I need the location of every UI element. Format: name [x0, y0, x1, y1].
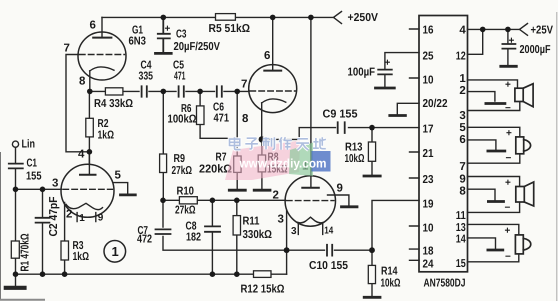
svg-text:R14: R14 [381, 266, 398, 278]
svg-text:R1 470kΩ: R1 470kΩ [20, 234, 32, 272]
svg-text:182: 182 [186, 232, 201, 244]
svg-text:+: + [385, 58, 391, 69]
svg-text:23: 23 [423, 174, 434, 186]
svg-text:+: + [505, 226, 511, 237]
svg-text:3: 3 [278, 214, 284, 226]
svg-text:12: 12 [456, 51, 466, 63]
svg-text:1: 1 [459, 73, 466, 85]
svg-text:20/22: 20/22 [423, 98, 448, 110]
svg-text:14: 14 [456, 234, 466, 246]
svg-text:472: 472 [137, 234, 152, 246]
svg-text:8: 8 [79, 76, 86, 88]
svg-text:10kΩ: 10kΩ [345, 153, 365, 165]
svg-text:2: 2 [459, 85, 465, 97]
svg-text:27kΩ: 27kΩ [172, 165, 193, 177]
svg-text:15: 15 [456, 258, 466, 270]
svg-text:C9 155: C9 155 [323, 109, 359, 121]
svg-text:5: 5 [115, 170, 122, 182]
svg-text:9: 9 [98, 213, 104, 224]
svg-text:100kΩ: 100kΩ [168, 114, 197, 126]
svg-text:3: 3 [291, 226, 297, 237]
svg-text:7: 7 [459, 161, 465, 173]
svg-text:R10: R10 [177, 186, 195, 198]
svg-text:C10 155: C10 155 [309, 260, 349, 272]
svg-text:−: − [505, 203, 511, 214]
svg-text:2000µF: 2000µF [520, 44, 551, 56]
svg-text:Lin: Lin [22, 139, 36, 151]
svg-text:9: 9 [337, 183, 343, 195]
svg-text:−: − [505, 103, 511, 114]
svg-text:21: 21 [423, 148, 435, 160]
svg-text:+: + [505, 80, 511, 91]
svg-text:R9: R9 [174, 153, 186, 165]
svg-text:C3: C3 [176, 29, 187, 41]
svg-text:5: 5 [459, 122, 466, 134]
svg-text:C2 47pF: C2 47pF [48, 197, 60, 237]
svg-text:24: 24 [423, 258, 435, 270]
svg-text:335: 335 [139, 71, 154, 83]
svg-text:10: 10 [423, 223, 434, 235]
svg-text:R5 51kΩ: R5 51kΩ [209, 23, 251, 35]
svg-text:8: 8 [242, 113, 249, 125]
svg-text:18: 18 [423, 246, 435, 258]
svg-text:+: + [505, 178, 511, 189]
svg-text:−: − [506, 153, 512, 164]
svg-text:17: 17 [423, 124, 434, 136]
svg-text:16: 16 [423, 25, 434, 37]
svg-text:2: 2 [66, 209, 72, 221]
svg-text:+25V: +25V [531, 25, 554, 37]
svg-text:C1: C1 [27, 158, 38, 170]
svg-text:7: 7 [241, 79, 247, 91]
svg-text:155: 155 [26, 171, 42, 183]
svg-text:27kΩ: 27kΩ [175, 205, 196, 217]
svg-text:R4 33kΩ: R4 33kΩ [94, 98, 133, 110]
svg-text:14: 14 [324, 225, 333, 236]
svg-text:R2: R2 [98, 118, 109, 130]
svg-text:7: 7 [64, 43, 70, 55]
svg-text:2: 2 [273, 190, 279, 202]
svg-text:www.dzdiy.com: www.dzdiy.com [239, 157, 327, 171]
svg-text:10: 10 [423, 75, 434, 87]
svg-text:+: + [165, 24, 171, 35]
svg-text:4: 4 [459, 25, 466, 37]
svg-text:10kΩ: 10kΩ [381, 278, 401, 290]
svg-text:R12 15kΩ: R12 15kΩ [241, 284, 285, 296]
svg-text:1: 1 [112, 244, 119, 259]
svg-text:+250V: +250V [348, 12, 379, 24]
svg-text:8: 8 [459, 185, 466, 197]
svg-text:330kΩ: 330kΩ [243, 229, 273, 241]
svg-text:3: 3 [52, 178, 58, 190]
svg-text:19: 19 [423, 199, 434, 211]
svg-text:471: 471 [174, 71, 186, 83]
svg-text:1: 1 [79, 213, 85, 224]
svg-text:R13: R13 [345, 142, 363, 154]
svg-text:6: 6 [459, 134, 465, 146]
svg-text:R7: R7 [216, 152, 227, 164]
svg-text:471: 471 [214, 113, 230, 125]
svg-text:100µF: 100µF [348, 67, 376, 79]
svg-text:−: − [505, 252, 511, 263]
svg-text:+: + [509, 36, 515, 47]
svg-text:3: 3 [459, 110, 465, 122]
svg-text:R11: R11 [243, 216, 260, 228]
svg-text:AN7580DJ: AN7580DJ [424, 278, 466, 290]
svg-text:4: 4 [78, 149, 85, 161]
svg-text:9: 9 [459, 174, 465, 186]
svg-text:6N3: 6N3 [129, 36, 147, 48]
svg-text:6: 6 [264, 50, 270, 62]
svg-text:1kΩ: 1kΩ [73, 251, 90, 263]
svg-text:25: 25 [423, 51, 435, 63]
svg-text:+: + [506, 128, 512, 139]
svg-text:20µF/250V: 20µF/250V [174, 41, 221, 53]
svg-text:11: 11 [456, 210, 466, 222]
svg-text:13: 13 [456, 222, 466, 234]
svg-text:1kΩ: 1kΩ [98, 130, 115, 142]
svg-text:6: 6 [90, 20, 96, 32]
